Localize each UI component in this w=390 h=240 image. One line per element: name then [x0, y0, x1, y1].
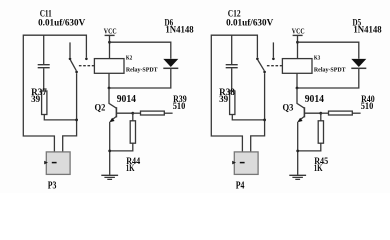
svg-text:Q3: Q3	[283, 102, 294, 113]
diode D6 cathode bar	[163, 67, 178, 69]
transistor Q3 base lead	[304, 112, 320, 114]
svg-text:P3: P3	[48, 180, 57, 192]
resistor R39 body	[141, 111, 165, 115]
wire: emitter down to ground	[109, 122, 111, 175]
wire: switch right throw stub (right ckt)	[272, 42, 274, 57]
connector P3 pin dash	[52, 162, 57, 164]
svg-text:510: 510	[361, 101, 374, 111]
wire: emitter down to ground (right ckt)	[297, 122, 299, 175]
svg-text:0.01uf/630V: 0.01uf/630V	[226, 17, 274, 27]
wire: D6 cathode down to collector node	[109, 69, 171, 88]
wire: R39 right lead	[164, 112, 172, 114]
resistor R44 body	[130, 121, 135, 143]
svg-text:1N4148: 1N4148	[353, 25, 382, 35]
wire: R40 right lead	[352, 112, 360, 114]
wire: base junction down to R45	[320, 113, 322, 121]
relay K2 box	[94, 59, 124, 74]
wire: base junction to R39	[133, 112, 141, 114]
node: base junction	[131, 112, 134, 115]
node: collector junction (right ckt)	[296, 87, 299, 90]
wire: relay K3 bottom pin to collector node	[296, 73, 298, 88]
svg-text:1N4148: 1N4148	[165, 25, 194, 35]
wire: top rail + left vertical + jog to P4 pin1	[211, 35, 257, 152]
wire: switch left throw stub	[69, 42, 71, 57]
wire: VCC stem to relay top pin	[109, 35, 111, 58]
svg-text:Relay-SPDT: Relay-SPDT	[314, 66, 346, 73]
switch SW lever	[70, 60, 76, 71]
node: junction R38/pole	[263, 119, 266, 122]
capacitor C11 top lead	[43, 35, 45, 64]
wire: VCC stem to relay top pin (right ckt)	[297, 35, 299, 58]
wire: pole down + jog to P4 pin2	[251, 73, 265, 152]
wire: VCC rail to diode D6 anode	[110, 42, 171, 59]
node: switch pole contact (right ckt)	[263, 71, 266, 74]
diode D5 cathode bar	[351, 67, 366, 69]
wire: R38 bottom to pole line	[232, 115, 264, 120]
node: switch pole contact	[75, 71, 78, 74]
wire: top rail + left vertical + jog to P3 pin1	[23, 35, 86, 152]
node: junction R37/pole	[75, 119, 78, 122]
resistor R45 body	[318, 121, 323, 143]
wire: pole down + jog to P3 pin2	[63, 73, 77, 152]
node: switch right throw contact	[85, 58, 88, 61]
wire: collector lead into Q2	[109, 88, 116, 108]
switch lever (right ckt)	[258, 60, 265, 71]
svg-text:9014: 9014	[117, 94, 136, 105]
ground symbol	[101, 175, 118, 179]
svg-text:39: 39	[219, 94, 229, 104]
node: switch left throw contact (right ckt)	[256, 58, 259, 61]
transistor Q3 base bar	[303, 107, 305, 117]
svg-text:39: 39	[31, 94, 41, 104]
wire: R45 bottom to emitter line	[298, 143, 321, 151]
connector P3 pin arrow	[44, 161, 48, 165]
transistor Q2 base bar	[115, 107, 117, 117]
node: collector junction	[108, 87, 111, 90]
diode D5 triangle	[351, 59, 366, 67]
resistor R38 body	[230, 91, 235, 115]
node: junction R44/emitter	[108, 150, 111, 153]
wire: collector lead into Q3	[297, 88, 304, 108]
ground symbol (right ckt)	[289, 175, 306, 179]
capacitor C12 top lead	[231, 35, 233, 64]
node: VCC junction (right ckt)	[296, 41, 299, 44]
wire: base junction to R40	[321, 112, 329, 114]
resistor R37 body	[42, 91, 47, 115]
wire: C11 to R37	[43, 68, 45, 91]
wire: R44 bottom to emitter line	[110, 143, 133, 151]
node: switch left throw contact	[69, 58, 72, 61]
svg-text:VCC: VCC	[104, 27, 117, 36]
svg-text:1K: 1K	[314, 163, 323, 173]
svg-text:K3: K3	[314, 55, 320, 62]
wire: C12 to R38	[231, 68, 233, 91]
capacitor C12 plates	[226, 65, 238, 68]
connector P4 pin dash	[240, 162, 245, 164]
svg-text:Relay-SPDT: Relay-SPDT	[126, 66, 158, 73]
node: junction R45/emitter	[296, 150, 299, 153]
dashed linkage to relay K2	[79, 65, 95, 67]
power VCC bar	[105, 34, 115, 36]
connector P4 box	[234, 152, 258, 175]
transistor Q2 base lead	[116, 112, 132, 114]
node: VCC junction	[108, 41, 111, 44]
node: switch right throw contact (right ckt)	[272, 58, 275, 61]
svg-text:1K: 1K	[126, 163, 135, 173]
transistor Q2 emitter lead	[111, 116, 117, 121]
wire: base junction down to R44	[132, 113, 134, 121]
wire: VCC rail to diode D5 anode	[298, 42, 359, 59]
svg-text:P4: P4	[236, 180, 245, 192]
svg-text:VCC: VCC	[292, 27, 305, 36]
svg-text:K2: K2	[126, 55, 132, 62]
diode D6 triangle	[163, 59, 178, 67]
svg-text:510: 510	[173, 101, 186, 111]
transistor Q2 emitter arrowhead	[110, 118, 115, 123]
relay K3 box	[282, 59, 312, 74]
capacitor C11 plates	[38, 65, 50, 68]
transistor Q3 emitter lead	[299, 116, 305, 121]
dashed linkage to relay K3	[267, 65, 283, 67]
transistor Q3 emitter arrowhead	[298, 118, 303, 123]
connector P3 box	[46, 152, 70, 175]
wire: relay K2 bottom pin to collector node	[108, 73, 110, 88]
resistor R40 body	[329, 111, 353, 115]
svg-text:0.01uf/630V: 0.01uf/630V	[38, 17, 86, 27]
svg-text:Q2: Q2	[95, 102, 106, 113]
node: base junction (right ckt)	[319, 112, 322, 115]
connector P4 pin arrow	[232, 161, 236, 165]
wire: D5 cathode down to collector node	[297, 69, 359, 88]
svg-text:9014: 9014	[305, 94, 324, 105]
wire: R37 bottom to pole line	[44, 115, 76, 120]
power VCC bar (right ckt)	[293, 34, 303, 36]
